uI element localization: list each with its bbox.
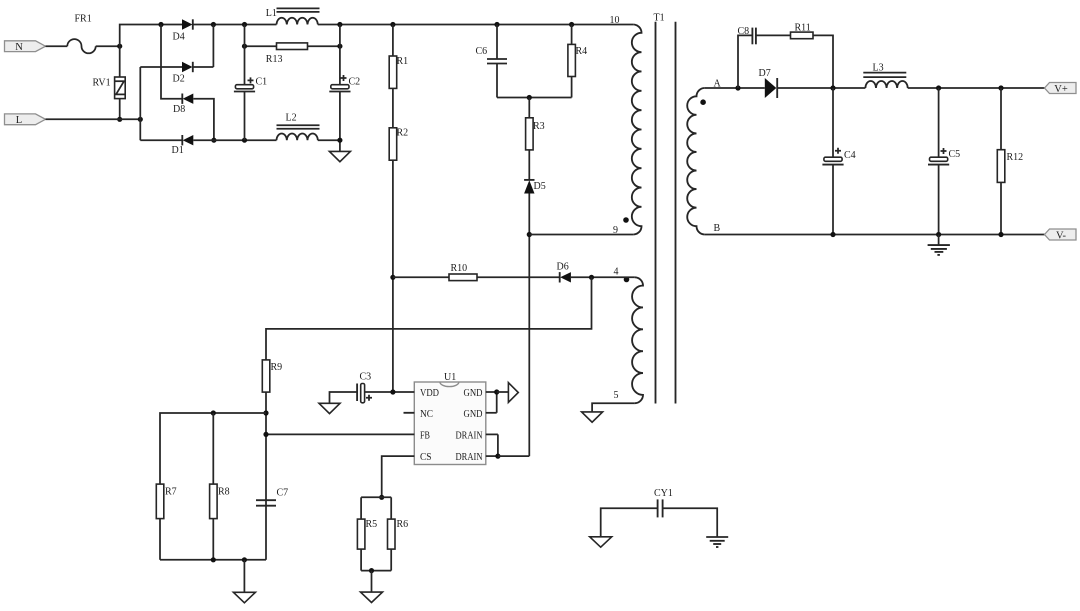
node R10 left junction [390,275,395,280]
diode D5 [524,180,546,194]
capacitor C6 [476,25,508,98]
inductor L2 [277,113,320,141]
svg-text:FR1: FR1 [75,14,92,25]
svg-text:L2: L2 [286,113,297,124]
node GND junction [494,389,499,394]
wire down to D2 cathode [212,25,214,68]
wire R11 down to A row [813,35,833,88]
node D4-D2 cathode junction [211,22,216,27]
capacitor C4 [822,88,855,235]
svg-text:DRAIN: DRAIN [456,451,483,463]
wire R2 down to VDD row [392,160,394,392]
secondary phase dot [700,99,706,105]
svg-text:FB: FB [420,429,430,441]
svg-text:NC: NC [420,408,433,420]
wire GND pin 1 [486,391,497,393]
wire D4 out [193,24,277,26]
svg-text:R7: R7 [165,487,177,498]
wire R10 to D6 [477,276,560,278]
resistor R6 [388,497,409,570]
resistor R10 [449,263,477,281]
node snubber left [735,85,740,90]
svg-text:R13: R13 [266,54,283,65]
wire D5 down to drain column [528,194,530,457]
node R8 top [211,410,216,415]
svg-text:L: L [16,115,22,126]
transformer core line 2 [675,22,677,404]
wire L2 to C2 column [318,139,340,141]
node pin4 junction [589,275,594,280]
wire L to bridge [46,118,141,120]
wire R10 row left [393,276,449,278]
wire fuse to node [96,45,120,47]
ground CY1 left (open triangle) [590,537,612,547]
svg-text:N: N [15,42,23,53]
transformer T1 aux winding [632,277,643,403]
resistor R8 [210,484,230,560]
wire R1 to R2 [392,88,394,127]
svg-text:5: 5 [614,390,619,401]
node RV1-L junction [117,117,122,122]
svg-text:V-: V- [1056,231,1067,242]
node R5R6 ground stub [369,568,374,573]
svg-text:RV1: RV1 [93,78,111,89]
wire CS row [382,456,415,497]
ground aux (open triangle) [582,412,603,422]
svg-text:L1: L1 [266,8,277,19]
node DRAIN junction [495,454,500,459]
svg-text:CY1: CY1 [654,488,673,499]
wire C3 to VDD pin [365,391,415,393]
svg-text:R3: R3 [533,121,545,132]
wire GND pin 2 [486,412,497,414]
svg-text:GND: GND [464,408,483,420]
node ground stub left [242,557,247,562]
node N-D8 branch [158,22,163,27]
node C1 bottom [242,138,247,143]
capacitor C2 [329,25,360,152]
wire snubber up-left [738,35,752,88]
svg-text:L3: L3 [873,63,884,74]
earth ground secondary [928,235,950,255]
node C5 top [936,85,941,90]
varistor RV1 [93,77,126,99]
diode D8 [173,94,193,116]
node C1 top [242,22,247,27]
terminal L [5,114,46,126]
svg-text:9: 9 [613,225,618,236]
diode D1 [172,135,194,156]
wire B row [705,234,1045,236]
node C5 bottom [936,232,941,237]
ground R5R6 (open triangle) [361,592,383,602]
ground R7R8C7 (open triangle) [233,592,255,603]
node clamp mid [527,95,532,100]
wire A row [705,87,765,89]
wire FB row [266,433,414,435]
wire GND join vertical [496,392,498,413]
svg-text:V+: V+ [1054,84,1068,95]
capacitor C7 [256,488,288,560]
svg-text:D7: D7 [759,68,771,79]
transformer T1 primary winding [632,25,642,235]
node C4 bottom [830,232,835,237]
capacitor C5 [928,88,960,235]
ground C3 (open triangle) [319,403,340,413]
node R13 left [242,44,247,49]
wire bottom rail D1 anode to L2 [193,139,276,141]
svg-text:VDD: VDD [420,387,439,399]
svg-text:R8: R8 [218,487,230,498]
wire R5 R6 top row [361,496,391,498]
resistor R13 [245,43,340,65]
node R12 bottom [998,232,1003,237]
svg-text:R10: R10 [451,263,468,274]
wire D8 anode to vertical [193,99,214,141]
wire pin5 to ground [592,403,635,412]
svg-text:R11: R11 [795,23,811,34]
wire L vertical D2 to D1 row [139,67,141,140]
ground primary (open triangle) [329,151,350,161]
diode D6 [557,262,571,283]
node R12 top [998,85,1003,90]
svg-text:C4: C4 [844,150,856,161]
wire N to fuse [46,45,68,47]
capacitor CY1 [654,488,673,517]
node R4 top [569,22,574,27]
capacitor C8 [738,26,756,44]
wire bottom row R7 R8 C7 [160,559,266,561]
wire R7 R8 top row [160,413,266,484]
svg-text:R4: R4 [576,46,588,57]
capacitor C1 [234,25,267,141]
svg-text:C8: C8 [738,26,750,37]
capacitor C3 [357,372,372,403]
aux phase dot [624,277,630,283]
wire DRAIN pin 1 [486,433,498,435]
earth ground CY1 [706,537,728,547]
wire CY1 left to ground [601,508,658,537]
wire R8 top vertical [212,413,214,484]
resistor R2 [389,128,408,161]
resistor R12 [997,88,1023,235]
terminal V- [1045,229,1077,242]
wire C8 to R11 [756,34,791,36]
wire D2 row left [140,66,182,68]
wire pin4 node down and left to R9 [266,277,592,360]
IC U1 body [414,372,486,465]
NC stub [404,412,415,414]
wire D7 to L3 [777,87,865,89]
svg-text:C6: C6 [476,46,488,57]
wire DRAIN pin 2 [486,455,498,457]
wire RV1 bottom to L line [119,99,121,120]
svg-text:D4: D4 [173,32,185,43]
node C6 top [494,22,499,27]
wire GND to triangle [497,391,509,393]
svg-text:D1: D1 [172,145,184,156]
svg-text:R1: R1 [397,56,409,67]
node L junction [138,117,143,122]
wire R5R6 ground stub [371,571,373,593]
wire D1 cathode row [140,139,182,141]
wire pin 9 row [529,234,633,236]
svg-text:C3: C3 [360,372,372,383]
wire N to D8 cathode [161,25,182,99]
wire ground stub left [243,560,245,593]
transformer core line 1 [655,22,657,404]
svg-text:C7: C7 [277,488,289,499]
diode D2 [173,62,193,85]
resistor R9 [262,360,282,506]
node R13 right [337,44,342,49]
svg-text:R9: R9 [271,362,283,373]
terminal N [5,41,46,53]
resistor R11 [791,23,814,39]
wire D6 to pin 4 [571,276,635,278]
svg-text:C5: C5 [949,149,961,160]
svg-text:C2: C2 [349,77,361,88]
inductor L3 [863,63,907,89]
resistor R4 [568,25,587,98]
wire C6-R4 bottom join [497,97,572,99]
wire D2 cathode to vertical [193,66,214,68]
svg-text:U1: U1 [444,372,456,383]
wire L3 to V+ [908,87,1045,89]
fuse FR1 [67,39,95,53]
wire R5 R6 bottom row [361,570,391,572]
svg-text:D6: D6 [557,262,569,273]
svg-text:10: 10 [610,15,620,26]
node VDD junction [390,389,395,394]
terminal V+ [1045,83,1077,96]
svg-text:DRAIN: DRAIN [456,429,483,441]
svg-text:R2: R2 [397,128,409,139]
resistor R1 [389,25,408,89]
node FB row junction [263,432,268,437]
node R1 top [390,22,395,27]
node R8 bottom [211,557,216,562]
wire DRAIN join vertical [497,434,499,456]
svg-text:R12: R12 [1007,152,1024,163]
resistor R5 [357,497,377,570]
svg-text:R6: R6 [397,519,409,530]
svg-text:C1: C1 [256,77,268,88]
node D8-D1 anode junction [211,138,216,143]
node R7R8 row junction [263,410,268,415]
svg-text:B: B [714,223,721,234]
svg-text:D5: D5 [534,181,546,192]
resistor R7 [156,484,176,560]
ground U1 (right-pointing open triangle) [508,383,518,403]
node L2-C2 junction [337,138,342,143]
svg-text:D8: D8 [173,104,185,115]
svg-text:D2: D2 [173,74,185,85]
svg-text:CS: CS [420,451,432,463]
node pin9 junction [527,232,532,237]
diode D7 [759,68,778,98]
node N junction [117,44,122,49]
svg-text:GND: GND [464,387,483,399]
wire C3 left to ground [330,392,358,403]
svg-text:4: 4 [614,267,619,278]
transformer T1 secondary winding [687,88,705,235]
wire L1 to rail right [318,24,633,26]
node snubber right / C4 top [830,85,835,90]
resistor R3 [526,98,545,180]
inductor L1 [266,8,320,25]
node C2 top [337,22,342,27]
node CS-R5R6 junction [379,495,384,500]
svg-text:R5: R5 [366,519,378,530]
primary phase dot [623,217,629,223]
diode D4 [173,19,193,42]
wire N node up to top rail corner [120,25,182,78]
wire CY1 right to earth [663,508,718,537]
wire DRAIN to drain column [498,455,529,457]
